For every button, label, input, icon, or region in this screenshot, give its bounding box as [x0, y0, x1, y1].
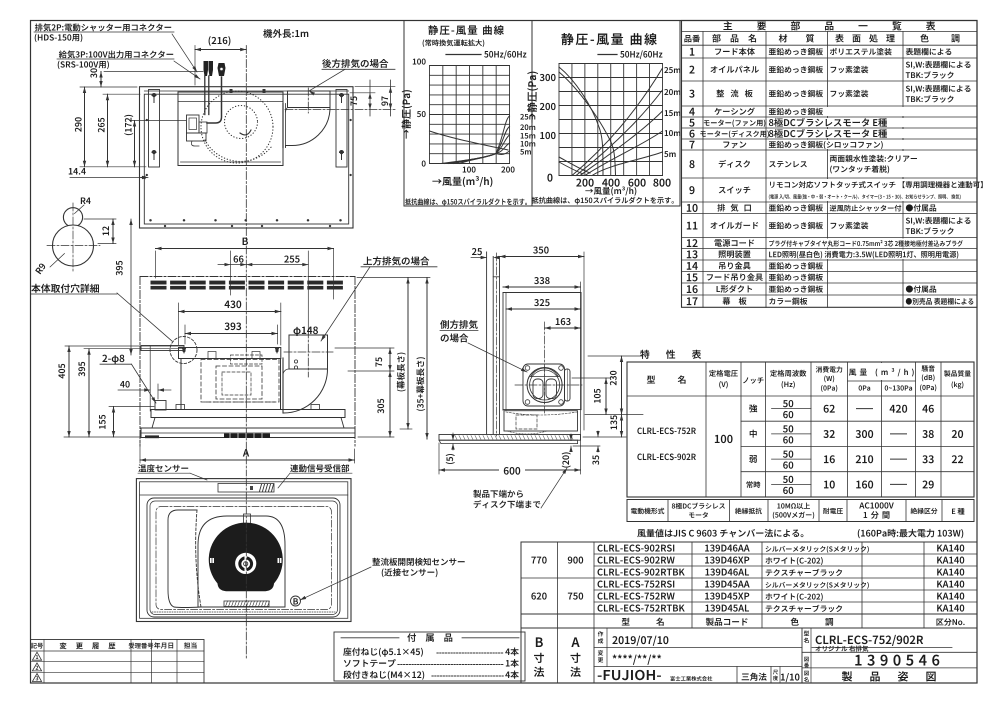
front view centerline — [245, 246, 247, 476]
top view duct centerlines — [285, 88, 395, 113]
front view hood top bar — [179, 347, 281, 359]
top view mounting brackets — [149, 90, 348, 168]
spec bottom strip text — [631, 502, 965, 519]
model table footer header — [622, 618, 965, 626]
title block footer — [598, 670, 800, 682]
side view body — [503, 293, 581, 432]
parts row 4 — [689, 107, 823, 115]
spec table data — [637, 400, 963, 494]
parts row 7 — [689, 141, 882, 149]
label supply 3P connector — [57, 50, 200, 79]
spec note — [637, 529, 963, 538]
title block grid — [521, 628, 977, 683]
dims makuita — [357, 278, 430, 440]
dims 66 255 — [218, 251, 308, 334]
right graph note — [532, 197, 674, 205]
label product bottom to disc bottom — [473, 468, 567, 508]
model table data — [531, 545, 964, 613]
bottom view receiver window — [218, 484, 274, 493]
title block dates — [598, 631, 669, 665]
dims 430 393 — [179, 300, 281, 345]
dim 40 — [118, 346, 171, 411]
dim 30 — [90, 68, 203, 87]
parts row 13 — [687, 250, 959, 258]
label 2-phi8 bracket — [100, 355, 166, 410]
front view mounting rail + detail circle — [141, 337, 197, 364]
parts row 15 — [687, 273, 823, 281]
parts row 11 — [687, 217, 971, 235]
dim (216) — [195, 36, 246, 85]
dims 75 97 rear duct — [350, 80, 395, 116]
spec table grid — [627, 362, 974, 497]
left graph axis labels — [402, 58, 515, 187]
dim B — [156, 238, 334, 299]
label exhaust 2P connector — [34, 23, 197, 72]
parts row 3 — [689, 85, 970, 103]
parts row 2 — [689, 61, 970, 79]
parts row 10 — [687, 204, 936, 212]
top view casing — [178, 92, 283, 166]
spec bottom strip grid — [627, 500, 974, 522]
spec table header — [647, 365, 971, 392]
dims 230 105 135 — [572, 356, 643, 437]
parts row 5 — [689, 118, 887, 127]
right graph title — [561, 33, 662, 59]
revision table — [31, 640, 205, 684]
label phi148 — [293, 327, 318, 337]
parts row 1 — [690, 48, 951, 56]
front view upward exhaust duct — [283, 330, 333, 413]
top view rear exhaust elbow — [283, 91, 330, 148]
left graph grid — [430, 66, 510, 164]
bottom view B sensor mark — [291, 596, 301, 606]
side view bottom slab — [439, 431, 581, 444]
dim 600 — [439, 443, 581, 476]
parts table header — [684, 21, 959, 42]
label interlock receiver — [278, 464, 352, 488]
bottom view outer — [136, 479, 351, 622]
label rear exhaust case — [309, 59, 395, 96]
bottom view oil panel — [147, 498, 340, 617]
top view outer body — [140, 87, 354, 228]
parts row 14 — [687, 262, 823, 270]
top view terminal box — [187, 115, 208, 146]
dim 14.4 — [69, 168, 148, 179]
bottom view baffle arch — [198, 514, 285, 607]
parts row 12 — [687, 239, 963, 247]
label louver sensor — [300, 558, 465, 600]
accessories box — [334, 632, 525, 681]
dim 12 — [84, 219, 116, 244]
front view switch strip — [224, 434, 270, 439]
dims 405 395 155 — [58, 346, 184, 437]
front view hood body — [181, 352, 281, 410]
left graph note — [405, 198, 527, 206]
top view fan scroll (dotted) — [201, 91, 273, 163]
parts row 16 — [687, 285, 936, 293]
label gaiwai-cho 1m — [263, 29, 308, 38]
top view screw dots — [146, 89, 352, 227]
bottom view disc — [209, 523, 283, 592]
dim (5) — [446, 433, 455, 464]
parts row 9 — [689, 181, 982, 199]
dim A — [140, 440, 355, 463]
dims 35 (20) — [562, 431, 600, 468]
parts table grid — [682, 21, 978, 308]
front view vent slots — [151, 281, 343, 290]
parts row 17 — [687, 297, 974, 305]
title block B/A dim labels — [534, 637, 581, 677]
dims 338 325 163 — [503, 277, 581, 446]
dims 290 265 172 — [75, 87, 186, 167]
mounting hole keyhole detail — [35, 197, 100, 274]
model table grid — [521, 542, 977, 628]
label mounting hole detail — [31, 284, 172, 341]
left graph curve labels — [520, 114, 535, 155]
right graph curves — [559, 67, 663, 176]
right graph curve labels — [664, 67, 680, 157]
bottom view left panel — [168, 510, 201, 608]
front view lower hood + bottom panel — [141, 405, 355, 439]
label temperature sensor — [138, 464, 207, 480]
left graph curves — [430, 116, 510, 164]
parts row 6 — [689, 129, 887, 138]
bottom view disc handle — [224, 601, 270, 607]
parts row 8 — [689, 155, 917, 174]
right graph axis labels — [527, 72, 671, 196]
dim 395 left — [116, 219, 133, 355]
side view duct column — [487, 252, 500, 436]
front view wall outline (dash-dot) — [140, 277, 355, 447]
top view power cables — [204, 61, 252, 135]
spec table title — [640, 350, 701, 359]
bottom view centerline — [245, 478, 247, 659]
right graph grid — [559, 64, 663, 176]
label side exhaust case — [440, 320, 527, 372]
title block product info — [804, 631, 952, 682]
dims 75 305 — [335, 348, 394, 437]
main centerline — [245, 46, 247, 241]
left graph title — [423, 25, 527, 59]
label upward exhaust case — [321, 256, 437, 341]
graph panel box — [404, 21, 680, 207]
side view exhaust flange — [515, 322, 582, 413]
dims 25 350 — [471, 247, 584, 430]
